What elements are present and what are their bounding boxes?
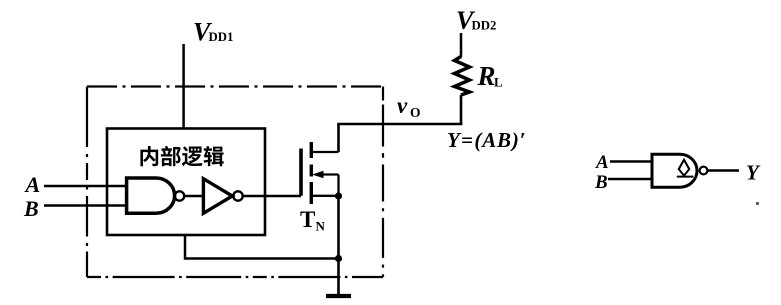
chip boundary left edge	[86, 87, 88, 278]
wire: internal logic ground lead	[185, 235, 339, 259]
channel segment body	[310, 165, 313, 177]
svg-text:N: N	[316, 219, 326, 234]
body riser down	[337, 175, 339, 197]
chip boundary top edge	[87, 85, 383, 87]
svg-text:Y: Y	[746, 161, 761, 185]
chip boundary dash-dot box	[87, 87, 383, 278]
NAND gate G3 (open-drain symbol)	[652, 154, 697, 187]
channel segment drain	[310, 142, 313, 158]
internal logic box	[107, 129, 265, 236]
body lead	[318, 173, 339, 175]
chip boundary bottom edge	[87, 276, 383, 278]
drain stub	[311, 151, 338, 153]
bubble G3	[700, 167, 708, 175]
svg-text:R: R	[477, 61, 496, 91]
resistor RL	[455, 57, 470, 96]
bubble G2	[233, 191, 242, 200]
inverter G2	[203, 179, 232, 214]
wire: RL bottom lead	[460, 95, 463, 125]
ground symbol	[326, 294, 351, 298]
wire: G1 to G2	[184, 195, 202, 198]
channel segment source	[310, 182, 313, 204]
wire: G3 output	[708, 169, 740, 171]
wire: VDD2 lead	[460, 33, 463, 57]
wire: B to G3	[608, 178, 652, 180]
svg-text:v: v	[397, 93, 408, 118]
wire: input B	[44, 204, 127, 207]
wire: G2 to TN gate	[243, 195, 301, 198]
stray mark (scan speck)	[756, 202, 759, 205]
svg-text:B: B	[594, 172, 608, 193]
wire: input A	[44, 185, 127, 188]
gate bar	[299, 149, 303, 196]
svg-text:O: O	[410, 105, 421, 120]
svg-text:L: L	[494, 75, 503, 90]
source stub	[311, 195, 338, 197]
junction dot source	[335, 192, 342, 199]
wire: source to ground	[337, 196, 340, 296]
wire: output node vO	[337, 123, 462, 126]
wire: VDD1 supply lead	[182, 44, 185, 129]
svg-text:B: B	[23, 196, 39, 221]
svg-text:DD2: DD2	[472, 19, 497, 33]
label 内部逻辑	[140, 146, 223, 166]
svg-text:A: A	[595, 152, 609, 173]
chip boundary right edge	[382, 87, 384, 278]
svg-text:A: A	[24, 172, 41, 197]
svg-text:DD1: DD1	[209, 30, 234, 44]
svg-text:T: T	[300, 207, 315, 232]
body arrow head	[312, 171, 324, 179]
open-drain underline	[677, 176, 694, 178]
wire: drain riser	[337, 124, 340, 152]
bubble G1	[175, 191, 184, 200]
NAND gate G1	[127, 178, 175, 213]
junction dot ground rail	[335, 255, 342, 262]
transistor TN	[301, 142, 339, 204]
wire: A to G3	[610, 160, 652, 162]
open-drain diamond qualifier	[679, 160, 690, 176]
svg-text:Y=(AB)′: Y=(AB)′	[447, 128, 526, 152]
